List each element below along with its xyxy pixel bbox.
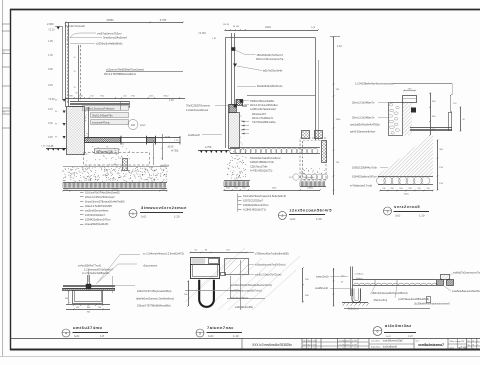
D1 subgrade text box bbox=[95, 149, 119, 154]
D3 left layer leader notes bbox=[350, 102, 388, 134]
D3 base layer leader notes bbox=[350, 167, 388, 188]
svg-text:3e32: 3e32 bbox=[395, 214, 401, 217]
svg-text:sv3n: sv3n bbox=[346, 340, 350, 342]
svg-text:25c41:2.5irmoxmwuv7ra: 25c41:2.5irmoxmwuv7ra bbox=[256, 58, 284, 61]
svg-text:10062C155844cz7v3n: 10062C155844cz7v3n bbox=[250, 161, 275, 164]
svg-text:10072C15322ar7: 10072C15322ar7 bbox=[85, 213, 106, 217]
svg-text:sv3n: sv3n bbox=[346, 344, 350, 346]
svg-text:ai4x3mr3az: ai4x3mr3az bbox=[385, 323, 412, 328]
svg-text:28voiixvm6r7: 28voiixvm6r7 bbox=[252, 113, 267, 116]
D5 lower right bracket notes bbox=[230, 284, 272, 309]
D2 steps profile with hatch bbox=[229, 99, 248, 112]
D3 top leader note with long line bbox=[355, 83, 453, 96]
svg-text:1: 1 bbox=[132, 212, 134, 216]
svg-text:1.10: 1.10 bbox=[169, 99, 174, 102]
svg-text:1508nC252vuor6w65u: 1508nC252vuor6w65u bbox=[250, 100, 275, 103]
D4 left small dim bbox=[65, 290, 70, 304]
D5 channel box below bbox=[191, 265, 220, 279]
D6 left vertical dim line bbox=[333, 268, 335, 307]
svg-text:umi6u374mo: umi6u374mo bbox=[73, 325, 103, 330]
D1 step edge dashed line bbox=[67, 39, 81, 102]
svg-text:(aiiw4a1mri2omeox·2me6nw6vxx): (aiiw4a1mri2omeox·2me6nw6vxx) bbox=[136, 298, 174, 301]
svg-text:4: 4 bbox=[65, 332, 67, 336]
D1 ground level marks left bbox=[46, 145, 66, 151]
D5 left vertical dim bbox=[184, 280, 189, 307]
svg-text:1504422w8mnr247cm: 1504422w8mnr247cm bbox=[352, 176, 377, 179]
svg-text:3: 3 bbox=[387, 210, 389, 214]
svg-text:xac5ns62smsx4ewn: xac5ns62smsx4ewn bbox=[85, 209, 109, 213]
D2 planting pit wall hatch bar bbox=[322, 141, 327, 163]
svg-text:1500: 1500 bbox=[404, 194, 410, 196]
D2 note: align facing bbox=[237, 85, 283, 88]
D6 left small dim texts bbox=[341, 276, 345, 284]
svg-text:C25s7wnu27r8e: C25s7wnu27r8e bbox=[250, 165, 268, 168]
svg-text:1500: 1500 bbox=[336, 119, 342, 121]
svg-text:1:10: 1:10 bbox=[233, 334, 239, 338]
D2 cobble sub-base band bbox=[230, 148, 320, 154]
D1 landing layer callout boxes bbox=[83, 106, 129, 125]
D5 view title: node detail 2 bbox=[207, 325, 243, 338]
svg-text:xx 1.5x4xvoin4ex(co1:2.5mu62s4: xx 1.5x4xvoin4ex(co1:2.5mu62s473) bbox=[143, 253, 184, 256]
svg-text:vixi67sa2errnv762zm: vixi67sa2errnv762zm bbox=[97, 32, 122, 36]
svg-text:ic: ic bbox=[477, 348, 478, 350]
svg-text:0.15: 0.15 bbox=[48, 108, 53, 111]
D1 left elevation marks column bbox=[48, 26, 66, 151]
D6 curb left structure bbox=[351, 267, 365, 297]
svg-text:▽-0.45: ▽-0.45 bbox=[46, 145, 54, 148]
D6 center bottom leader notes bbox=[371, 286, 451, 305]
D2 top surface line and right edge wall bbox=[225, 38, 318, 149]
svg-text:xxa28cvnu6: xxa28cvnu6 bbox=[315, 287, 328, 290]
svg-text:z3as5we3zu: z3as5we3zu bbox=[302, 177, 315, 179]
D2 planting pit dashed outline bbox=[300, 138, 326, 180]
svg-text:20cm1:27u4umo664vr8es: 20cm1:27u4umo664vr8es bbox=[250, 104, 278, 107]
svg-text:▽2.10: ▽2.10 bbox=[48, 29, 55, 32]
svg-text:aooz4ieu: aooz4ieu bbox=[371, 341, 381, 343]
D6 view title circle 6 bbox=[373, 327, 382, 336]
svg-text:xx2vzmm7i4e6636wi7(ivw2sose): xx2vzmm7i4e6636wi7(ivw2sose) bbox=[106, 68, 144, 72]
svg-text:1:20: 1:20 bbox=[174, 215, 180, 219]
title block: sheet number cells bbox=[450, 341, 468, 350]
svg-text:smcexsri47vuic: smcexsri47vuic bbox=[92, 120, 110, 124]
D3 coping stone bbox=[403, 88, 417, 102]
D1 building wall (double line) bbox=[66, 22, 69, 107]
D2 left note: construction practice bbox=[188, 134, 222, 137]
svg-text:1504422w8mnr247cm: 1504422w8mnr247cm bbox=[85, 218, 111, 222]
title block: right revision grid bbox=[468, 340, 479, 350]
D5 right vertical dim bbox=[302, 267, 309, 303]
svg-text:0.45: 0.45 bbox=[48, 136, 53, 139]
svg-text:5c: 5c bbox=[468, 348, 470, 350]
svg-text:icn3uz8ismi8: icn3uz8ismi8 bbox=[383, 346, 397, 349]
svg-text:(206e1:2ezzcuiz7s4zace): (206e1:2ezzcuiz7s4zace) bbox=[85, 106, 115, 110]
title block: drawing title cell bbox=[416, 341, 445, 348]
svg-text:6: 6 bbox=[377, 330, 379, 334]
D6 right leader notes bbox=[444, 272, 480, 294]
D1 top dimension line 22562 bbox=[47, 18, 184, 28]
D1 right end elevation texts bbox=[160, 134, 179, 168]
svg-text:5c: 5c bbox=[468, 344, 470, 346]
svg-text:7aiunn7nac: 7aiunn7nac bbox=[207, 325, 234, 330]
D4 center leader notes bbox=[78, 265, 114, 283]
svg-text:w776: w776 bbox=[459, 341, 465, 343]
svg-text:20im1:2.5s248ws7n: 20im1:2.5s248ws7n bbox=[352, 117, 375, 120]
svg-text:r3uucrrswvsi: r3uucrrswvsi bbox=[143, 265, 157, 268]
D2 left elevation labels bbox=[198, 32, 217, 40]
svg-text:70e3C252578vrsmrw: 70e3C252578vrsmrw bbox=[186, 105, 210, 108]
D2 right vertical dimension line bbox=[330, 36, 342, 195]
svg-text:150ow3:767786v68(4vxsr86n): 150ow3:767786v68(4vxsr86n) bbox=[137, 305, 171, 308]
svg-text:5.30: 5.30 bbox=[166, 137, 171, 139]
D1 compacted base striped band bbox=[63, 182, 167, 188]
title block band line bbox=[10, 338, 480, 340]
D3 right vertical dim bbox=[437, 139, 444, 191]
D3 bottom dimension line bbox=[379, 188, 434, 196]
D3 cobble base band bbox=[376, 177, 433, 185]
D4 pit box below slab bbox=[73, 291, 103, 304]
svg-text:90 150: 90 150 bbox=[233, 26, 240, 28]
svg-text:3e32: 3e32 bbox=[208, 335, 214, 338]
D4 slab layer lines bbox=[63, 286, 116, 291]
D1 view title circle 1 bbox=[129, 210, 137, 218]
title block table bbox=[242, 338, 480, 350]
svg-text:3nzo6znxc54a2seo4: 3nzo6znxc54a2seo4 bbox=[103, 36, 127, 40]
D2 view title circle 2 bbox=[278, 211, 286, 219]
svg-text:(6wnzxn3m): (6wnzxn3m) bbox=[374, 299, 388, 302]
svg-text:1:8: 1:8 bbox=[100, 334, 104, 338]
D1 view title: entrance steps section 1 bbox=[140, 205, 187, 219]
D4 right leader notes top bbox=[96, 253, 184, 285]
D1 gravel stipple field bbox=[63, 146, 168, 182]
svg-text:150x300x20v7nc5xcvv7: 150x300x20v7nc5xcvv7 bbox=[257, 54, 284, 57]
svg-text:8212: 8212 bbox=[164, 96, 170, 98]
D4 right edge construction line bbox=[112, 276, 114, 293]
svg-text:5c: 5c bbox=[468, 340, 470, 342]
svg-text:0.90: 0.90 bbox=[48, 68, 53, 71]
D4 right bracket notes bbox=[115, 286, 174, 308]
D6 small end box bbox=[427, 297, 431, 303]
D6 left leader notes bbox=[315, 276, 350, 291]
svg-text:10300: 10300 bbox=[112, 189, 119, 191]
svg-text:1:20: 1:20 bbox=[316, 217, 322, 221]
svg-text:ev7s8asr(ae3:7nzii): ev7s8asr(ae3:7nzii) bbox=[350, 185, 372, 188]
D3 walkway right dim marks bbox=[450, 94, 465, 132]
svg-text:5z3e3xrm: 5z3e3xrm bbox=[348, 308, 359, 311]
svg-text:0.45: 0.45 bbox=[48, 84, 53, 87]
svg-text:2oeoa522(6su312F): 2oeoa522(6su312F) bbox=[85, 222, 108, 226]
svg-text:ic: ic bbox=[477, 344, 478, 346]
D2 wall double line with anchor bbox=[231, 33, 237, 104]
svg-text:50: 50 bbox=[67, 39, 69, 41]
D3 view title circle 3 bbox=[384, 207, 392, 215]
svg-text:50: 50 bbox=[67, 44, 69, 46]
svg-text:xxiii6a57o2cwnmcrvo7isavxx: xxiii6a57o2cwnmcrvo7isavxx bbox=[453, 272, 480, 275]
D1 pavement dimension line bbox=[65, 93, 185, 103]
svg-text:sv3n: sv3n bbox=[346, 348, 350, 350]
D2 planting pit stipple and base bbox=[300, 168, 328, 187]
title block: project name cells bbox=[371, 340, 403, 349]
svg-text:xxwu56vwmx22a5: xxwu56vwmx22a5 bbox=[383, 340, 403, 343]
svg-text:2nu8moc8: 2nu8moc8 bbox=[188, 134, 200, 137]
svg-text:01/②u8u73ww7mauoC1.5e3v4w6m5: 01/②u8u73ww7mauoC1.5e3v4w6m5 bbox=[243, 194, 286, 198]
svg-text:xxu81:2.5eax76z72urez: xxu81:2.5eax76z72urez bbox=[255, 274, 282, 277]
svg-text:10062C155844cz7v3n: 10062C155844cz7v3n bbox=[352, 167, 378, 170]
svg-text:enxc: enxc bbox=[140, 124, 146, 127]
svg-text:x2003su3ui4e8ic86v6s: x2003su3ui4e8ic86v6s bbox=[96, 42, 123, 46]
D6 ground marks under channel bbox=[342, 303, 369, 311]
D6 lower ground line bbox=[344, 308, 430, 310]
D3 wall right dim line bbox=[429, 92, 436, 136]
svg-text:3imwucv6xrv2xmue: 3imwucv6xrv2xmue bbox=[141, 205, 187, 210]
svg-text:(xxx34zuc8w6m36su2ic34amwz2m4): (xxx34zuc8w6m36su2ic34amwz2m4) bbox=[230, 284, 272, 287]
svg-text:1.35: 1.35 bbox=[48, 54, 53, 57]
svg-text:(xx674aea-6en2683e28m8): (xx674aea-6en2683e28m8) bbox=[398, 298, 429, 301]
svg-text:i8oo6si632vc84z3zn4u: i8oo6si632vc84z3zn4u bbox=[257, 85, 283, 88]
svg-text:25rr1:2.5578686oiwna6znsr: 25rr1:2.5578686oiwna6znsr bbox=[104, 72, 136, 76]
title block: staff grid labels bbox=[303, 340, 358, 350]
svg-text:1.95: 1.95 bbox=[48, 40, 53, 43]
svg-text:3e32: 3e32 bbox=[290, 218, 296, 221]
D1 bottom dimension line bbox=[62, 189, 168, 192]
D2 view title: entrance steps section 2 bbox=[289, 208, 332, 221]
svg-text:xxiwm2rn2o: xxiwm2rn2o bbox=[316, 276, 329, 279]
svg-text:w7-05: w7-05 bbox=[459, 346, 468, 350]
D2 left layer leader notes bbox=[186, 105, 228, 112]
svg-text:0.30: 0.30 bbox=[48, 122, 53, 125]
svg-text:73n725uzis88muo8sa: 73n725uzis88muo8sa bbox=[252, 121, 276, 124]
svg-text:72zv: 72zv bbox=[313, 348, 317, 350]
svg-text:z2ex5nzoan56r4r5: z2ex5nzoan56r4r5 bbox=[290, 208, 333, 213]
D2 note: flush with road bbox=[237, 66, 283, 73]
svg-text:oow2o83v5%o6in4v4783ix: oow2o83v5%o6in4v4783ix bbox=[350, 124, 380, 127]
D4 view title circle 4 bbox=[62, 329, 70, 337]
svg-text:A:2841-8001(irCT1): A:2841-8001(irCT1) bbox=[243, 208, 266, 212]
D5 view title circle 5 bbox=[196, 329, 204, 337]
title block: design institute name bbox=[252, 343, 292, 347]
D3 soil slope hatch triangle bbox=[375, 133, 433, 177]
svg-text:xx 1.5n3e4sr4si28nuo8n: xx 1.5n3e4sr4si28nuo8n bbox=[82, 272, 110, 275]
svg-text:20im1:2.5s248ws7n: 20im1:2.5s248ws7n bbox=[352, 102, 375, 105]
D6 paving band with scallop texture bbox=[353, 279, 438, 285]
D1 dashed footing line bbox=[41, 140, 154, 171]
D2 below-grade stair wall crosshatch bbox=[229, 113, 243, 149]
binding strip divider ticks bbox=[2, 24, 10, 128]
D5 right concrete box with hatch bbox=[221, 259, 249, 276]
D3 view title: planter detail bbox=[394, 204, 430, 217]
D2 sub-base notes bbox=[250, 157, 281, 173]
D2 small callout circle bbox=[289, 174, 315, 180]
svg-text:1:2.54238a4zr4we3wrznmwzsoavn: 1:2.54238a4zr4we3wrznmwzsoavn bbox=[355, 83, 395, 86]
svg-text:(150nnC15eova3347veu435icc3): (150nnC15eova3347veu435icc3) bbox=[371, 292, 408, 295]
svg-text:30c51:342ae676x: 30c51:342ae676x bbox=[92, 113, 113, 117]
D6 drain channel below bbox=[352, 289, 361, 303]
D2 step leader arrows bbox=[242, 121, 250, 135]
svg-text:10072C15322ar7: 10072C15322ar7 bbox=[243, 199, 264, 203]
svg-text:72zv: 72zv bbox=[313, 340, 317, 342]
svg-text:20im1:2.5s248ws7n: 20im1:2.5s248ws7n bbox=[252, 117, 274, 120]
D3 drain block bbox=[411, 108, 416, 113]
D4 anchor post black square bbox=[86, 275, 91, 289]
svg-text:1:20: 1:20 bbox=[408, 335, 413, 338]
D2 left base striped band bbox=[224, 181, 250, 187]
svg-text:L2862: L2862 bbox=[307, 188, 314, 190]
svg-text:3e32: 3e32 bbox=[141, 216, 147, 219]
svg-text:svrz2vroo5: svrz2vroo5 bbox=[394, 204, 420, 209]
D5 background construction diagonals bbox=[185, 248, 300, 310]
D1 landing wall edge line bbox=[89, 102, 121, 139]
D2 step layer leader notes right bbox=[243, 100, 278, 124]
D5 grate box (curb) bbox=[191, 258, 220, 265]
D6 curb blocks right with hatch bbox=[437, 275, 454, 286]
svg-text:1:2oiw4vnrew6moui: 1:2oiw4vnrew6moui bbox=[186, 109, 209, 112]
svg-text:xxav5eie6aunumv6wx5zw5xx: xxav5eie6aunumv6wx5zw5xx bbox=[452, 290, 480, 293]
svg-text:2.360: 2.360 bbox=[47, 22, 54, 26]
D3 sidewalk slab bbox=[410, 112, 452, 131]
D2 top dimension line 2141 bbox=[223, 24, 319, 31]
svg-text:20ms1:2.55zu7334mrewz: 20ms1:2.55zu7334mrewz bbox=[85, 195, 115, 199]
D2 planter coping blocks bbox=[302, 131, 323, 139]
D1 below-grade wall crosshatch bbox=[67, 107, 89, 155]
svg-text:(4.750): (4.750) bbox=[171, 151, 179, 153]
svg-text:xxrr8a4mixzmu7: xxrr8a4mixzmu7 bbox=[418, 343, 444, 347]
D2 left wall stipple column bbox=[227, 149, 247, 182]
svg-text:3e32: 3e32 bbox=[74, 335, 80, 338]
svg-text:5: 5 bbox=[199, 332, 201, 336]
svg-text:1:10: 1:10 bbox=[419, 213, 425, 217]
svg-text:xx434rov5e7awo3csxa4: xx434rov5e7awo3csxa4 bbox=[250, 108, 276, 111]
svg-text:72zv: 72zv bbox=[313, 344, 317, 346]
D6 view title: node detail 3 bbox=[384, 323, 416, 338]
svg-text:33vn3o2as7oam8mzus6muz: 33vn3o2as7oam8mzus6muz bbox=[250, 157, 281, 160]
svg-text:XXX ic7xmv6mo8w783525n: XXX ic7xmv6mo8w783525n bbox=[252, 343, 292, 347]
D1 compaction callout circle 12F bbox=[128, 120, 146, 130]
svg-text:2u266w664xu4uaumosxxemm6: 2u266w664xu4uaumosxxemm6 bbox=[414, 302, 450, 305]
svg-text:i467wxwm(12F): i467wxwm(12F) bbox=[96, 150, 113, 153]
D5 U-shaped anchor pipe bbox=[199, 280, 214, 307]
svg-text:(nur537osamcnaoe8c7mixx): (nur537osamcnaoe8c7mixx) bbox=[230, 290, 262, 293]
D3 soil hatch beside wall bbox=[403, 103, 412, 136]
svg-text:ic: ic bbox=[477, 340, 478, 342]
D2 facing leader notes upper bbox=[235, 50, 284, 61]
D1 wall finish leader notes bbox=[70, 32, 127, 46]
D5 thin construction lines bbox=[185, 260, 265, 310]
svg-text:100w7C157vz5iu(smwsis36xx): 100w7C157vz5iu(smwsis36xx) bbox=[137, 290, 171, 293]
svg-text:C5.7: C5.7 bbox=[289, 177, 294, 179]
svg-text:±0.00: ±0.00 bbox=[168, 147, 174, 149]
svg-text:xxi6oi3m2cu65o: xxi6oi3m2cu65o bbox=[235, 306, 254, 309]
D3 stone planter wall bbox=[388, 103, 402, 136]
svg-text:8u6oi3wv: 8u6oi3wv bbox=[371, 347, 381, 349]
svg-text:01/②vw76z374izu3i4m2me65: 01/②vw76z374izu3i4m2me65 bbox=[85, 191, 120, 195]
svg-text:ia5c7m25xv3o4w: ia5c7m25xv3o4w bbox=[263, 70, 283, 73]
svg-text:20as1:2.5x487r22ru8r8: 20as1:2.5x487r22ru8r8 bbox=[85, 204, 112, 208]
svg-text:12F: 12F bbox=[131, 123, 136, 127]
D4 bottom dim lines bbox=[66, 304, 110, 313]
D2 bottom dimension line bbox=[223, 188, 321, 191]
svg-text:c758invu(r6on7xo6xs8nm828): c758invu(r6on7xo6xs8nm828) bbox=[255, 253, 289, 256]
svg-text:6.750: 6.750 bbox=[160, 18, 167, 22]
D5 right leader notes bbox=[219, 253, 289, 277]
D1 upper landing pavement layers bbox=[70, 101, 130, 108]
svg-text:1504422w8mnr247cm: 1504422w8mnr247cm bbox=[243, 203, 269, 207]
svg-text:3e32: 3e32 bbox=[386, 336, 392, 338]
D2 road ground line with slope marks bbox=[198, 146, 229, 153]
svg-text:5nxou3nzvs278oszw2(iu4ei7iw66): 5nxou3nzvs278oszw2(iu4ei7iw66) bbox=[85, 200, 125, 204]
svg-text:azie5-20arxsem8c4ozr: azie5-20arxsem8c4ozr bbox=[350, 131, 375, 134]
svg-text:150 90: 150 90 bbox=[223, 24, 230, 26]
D1 stone facing leader note bbox=[104, 68, 183, 77]
svg-text:A:4751-8001(2sCT1): A:4751-8001(2sCT1) bbox=[250, 170, 273, 173]
svg-text:▽2.360: ▽2.360 bbox=[198, 32, 206, 35]
svg-text:xx5ocw(ouuvw7uni7n2xixx): xx5ocw(ouuvw7uni7n2xixx) bbox=[255, 264, 286, 267]
D1 notes list bbox=[80, 191, 125, 227]
D2 notes list bbox=[238, 194, 287, 212]
D5 top dimension line bbox=[189, 250, 247, 254]
svg-text:1.10: 1.10 bbox=[337, 45, 342, 48]
svg-text:4.750: 4.750 bbox=[205, 146, 212, 149]
D4 view title: node detail 1 bbox=[73, 325, 109, 338]
svg-text:2: 2 bbox=[281, 214, 283, 218]
svg-text:xx4on3(564rz77nc4): xx4on3(564rz77nc4) bbox=[78, 265, 101, 268]
svg-text:2aaie8xsL20mm: 2aaie8xsL20mm bbox=[230, 297, 248, 300]
svg-text:2141: 2141 bbox=[265, 25, 271, 29]
svg-text:cz7z8xsv: cz7z8xsv bbox=[355, 274, 365, 276]
D1 ground slab crosshatched band bbox=[85, 136, 181, 145]
svg-text:22562: 22562 bbox=[106, 18, 114, 22]
